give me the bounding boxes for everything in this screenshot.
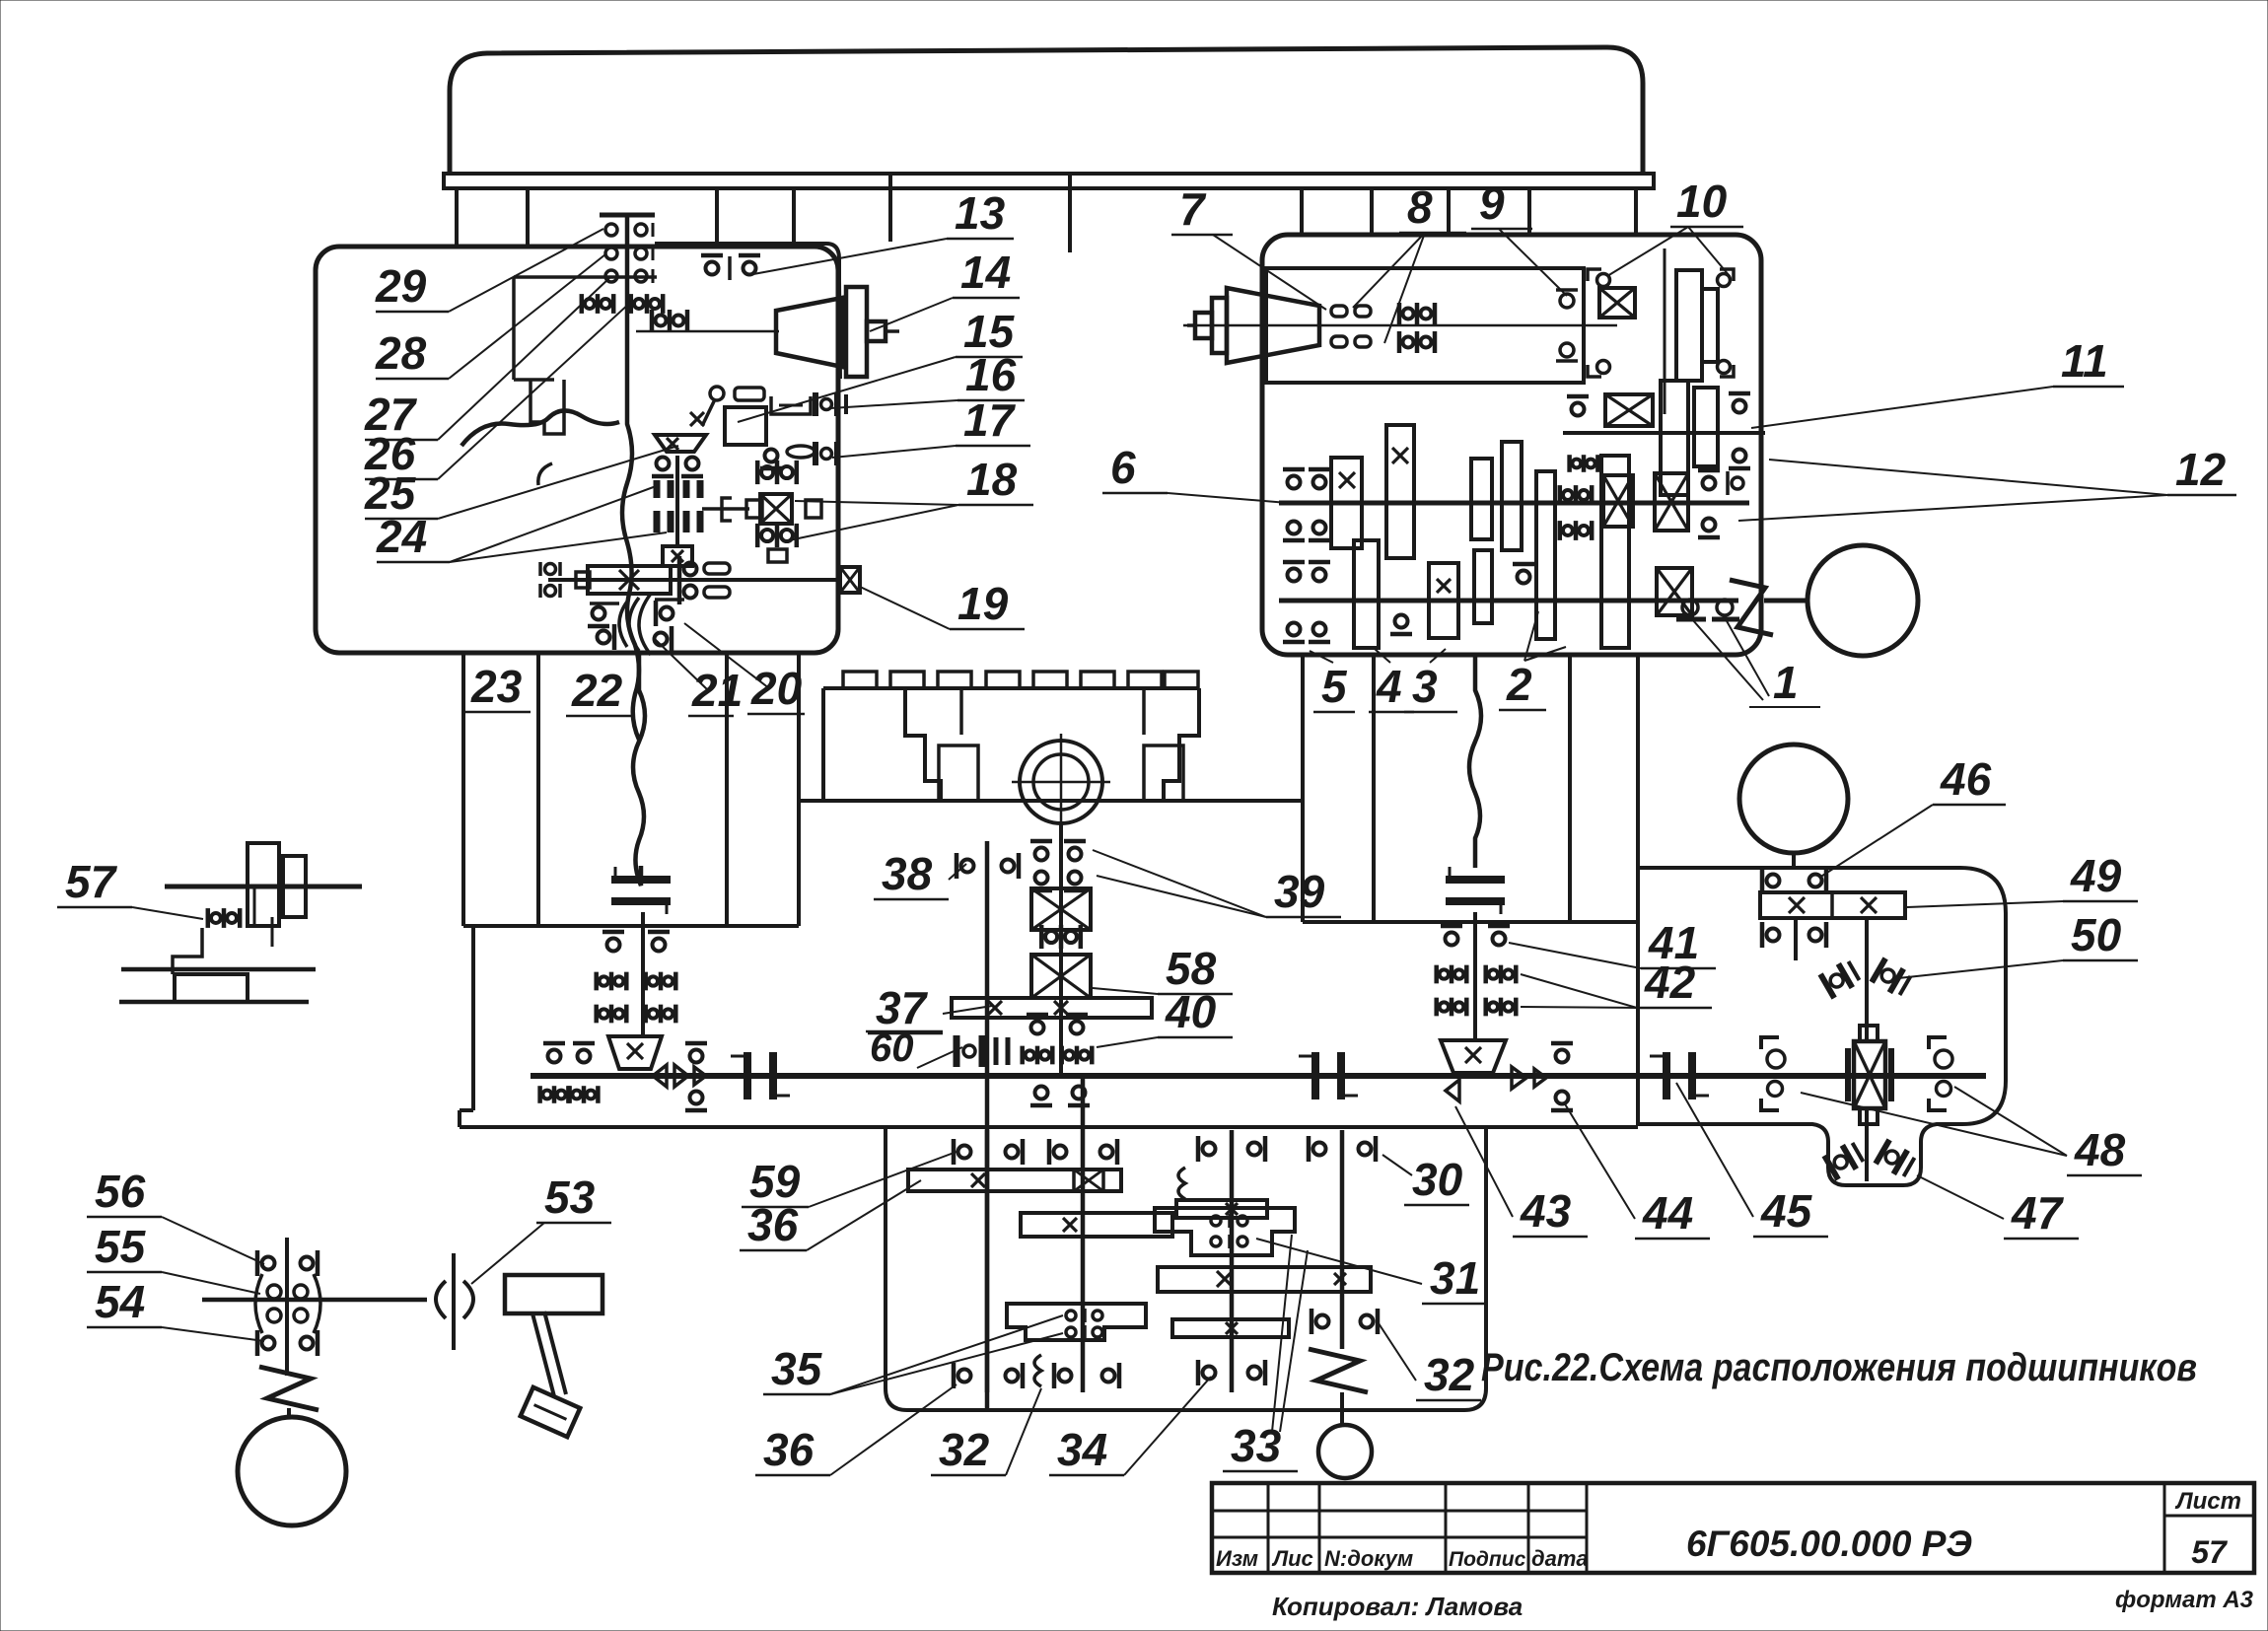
svg-text:дата: дата [1531, 1546, 1589, 1571]
svg-text:29: 29 [375, 260, 427, 312]
xbox 40b [1031, 955, 1091, 998]
bearings left of box [540, 562, 560, 598]
low xbox [1657, 568, 1692, 615]
bearing C bottom [1198, 1360, 1265, 1385]
coil C [1178, 1168, 1185, 1199]
main coupling A [731, 1052, 790, 1099]
low bearings right 1 [1676, 600, 1739, 619]
label 59 [742, 1152, 957, 1207]
svg-text:57: 57 [2191, 1534, 2229, 1570]
bottom shaft A [985, 1130, 990, 1392]
label 60 [870, 1027, 962, 1070]
label 11 [1751, 335, 2124, 428]
low shaft right [1279, 599, 1738, 603]
mid xboxes [1603, 473, 1688, 531]
machine top cover outline [450, 47, 1643, 174]
label 22 [566, 665, 631, 716]
block 35 [1007, 1304, 1146, 1340]
spindle flange left box [600, 213, 655, 218]
label 55 [87, 1221, 260, 1294]
svg-text:19: 19 [957, 578, 1009, 629]
shaft D to wheel [1340, 1392, 1344, 1426]
mid gears A [1331, 458, 1362, 548]
svg-text:формат А3: формат А3 [2115, 1587, 2254, 1613]
bracket bearings 48 right [1929, 1037, 1952, 1110]
sheet number [2191, 1534, 2229, 1570]
xbox end 19 [840, 567, 860, 593]
svg-text:6: 6 [1110, 442, 1136, 493]
label 6 [1102, 442, 1288, 503]
gear bar 1 [908, 1170, 1121, 1191]
right bearing stack [1437, 926, 1517, 1016]
coil B bottom [1034, 1355, 1041, 1386]
left bearing stack [597, 932, 676, 1023]
title block horizontals [1212, 1511, 2254, 1537]
svg-text:24: 24 [376, 511, 427, 562]
label 40 [1097, 986, 1233, 1047]
fraction bar 37 60 [866, 1030, 943, 1033]
pad under 18 [768, 549, 787, 562]
main coupling C [1650, 1052, 1709, 1099]
left columns [463, 653, 799, 926]
label 58 [1093, 943, 1233, 994]
label 45 [1676, 1083, 1828, 1237]
svg-text:32: 32 [1424, 1349, 1475, 1400]
svg-text:11: 11 [2061, 335, 2108, 387]
left feed shaft mid [641, 912, 645, 1036]
big handwheel bottom left [238, 1417, 346, 1525]
label 35 [763, 1315, 1063, 1394]
svg-text:18: 18 [966, 454, 1018, 505]
svg-text:23: 23 [470, 661, 523, 712]
label 1 [1692, 619, 1820, 708]
table body [823, 688, 1199, 801]
label 7 [1171, 183, 1326, 310]
motor cone flange [846, 287, 899, 377]
bottom gearbox outline [886, 1127, 1486, 1410]
right columns [1303, 655, 1638, 922]
svg-text:2: 2 [1506, 659, 1532, 710]
label 16 [830, 349, 1025, 408]
bearing 13 group [701, 255, 760, 280]
bearing column 24 left [652, 456, 703, 566]
shaft 40 vertical upper [1059, 824, 1063, 1077]
label 57 [57, 856, 203, 919]
label 46 [1819, 753, 2006, 878]
small handwheel [1318, 1425, 1372, 1478]
selector body [725, 407, 766, 445]
bearing B top [1049, 1139, 1117, 1165]
left feed coupling [611, 867, 671, 914]
mounting band under cover [444, 174, 1654, 188]
right motor flange [1187, 298, 1227, 353]
svg-text:36: 36 [747, 1199, 799, 1250]
trapezoid gear 15 [655, 435, 706, 452]
connector stubs band to left gearbox [457, 176, 1070, 252]
upper right bearings [1567, 393, 1750, 472]
label 5 [1310, 651, 1355, 712]
svg-text:13: 13 [955, 187, 1006, 239]
svg-text:42: 42 [1644, 957, 1696, 1008]
label 23 [465, 661, 531, 712]
label 30 [1382, 1154, 1469, 1205]
mid gears C [1471, 442, 1555, 639]
label 34 [1049, 1377, 1211, 1475]
copied by [1272, 1592, 1523, 1621]
small circle 17 row [760, 446, 815, 468]
housing end bearings 9 [1556, 290, 1578, 361]
table teeth [823, 672, 1199, 688]
svg-text:32: 32 [939, 1424, 990, 1475]
right bevel gear pair [1441, 1040, 1546, 1101]
svg-text:3: 3 [1412, 661, 1438, 712]
bearing box with X item 20 [576, 566, 671, 594]
bold cluster 17 [815, 442, 837, 465]
right motor cone [1227, 288, 1319, 363]
label 2 [1499, 611, 1566, 710]
lever 53 handle [521, 1312, 581, 1437]
svg-text:30: 30 [1412, 1154, 1463, 1205]
bearing 38 [957, 853, 1019, 879]
shaft 46 bearing top [1762, 868, 1826, 893]
mid gears B [1386, 425, 1414, 558]
bearings right of box 21 [679, 556, 730, 604]
low extra bearings [1390, 564, 1534, 634]
label 42 [1521, 957, 1712, 1008]
label 21 [655, 639, 743, 716]
gear bar 2 [1021, 1213, 1172, 1237]
label 3 [1404, 649, 1457, 712]
label 4 [1369, 649, 1414, 712]
tilted bearings 50 [1820, 958, 1912, 998]
svg-text:38: 38 [882, 848, 933, 899]
label 53 [471, 1171, 611, 1284]
zigzag 54 [259, 1367, 319, 1410]
svg-text:47: 47 [2011, 1187, 2065, 1239]
left feed shaft wavy lower [633, 653, 645, 886]
label 47 [1917, 1175, 2079, 1239]
svg-text:16: 16 [965, 349, 1017, 400]
label 37 [868, 982, 992, 1033]
svg-text:N:докум: N:докум [1324, 1546, 1413, 1571]
bearings below main [1030, 1087, 1090, 1106]
label 36b [755, 1384, 957, 1475]
label 50 [1898, 909, 2138, 978]
mid bearings left 6 [1283, 469, 1330, 540]
gear shaft mid right [1279, 501, 1749, 506]
table bottom line [799, 799, 1303, 803]
svg-text:34: 34 [1057, 1424, 1107, 1475]
bearing 18 lower [757, 524, 797, 547]
xbox 18 [746, 494, 821, 524]
gear bar C small [1176, 1200, 1267, 1218]
svg-text:50: 50 [2071, 909, 2122, 960]
svg-text:22: 22 [571, 665, 623, 716]
svg-text:9: 9 [1479, 177, 1505, 229]
sheet word [2174, 1488, 2241, 1515]
upper right shaft [1563, 431, 1765, 435]
bearing A top [954, 1139, 1023, 1165]
label 41 [1509, 917, 1716, 968]
table bore circles [1012, 734, 1110, 831]
block 31 [1155, 1208, 1295, 1255]
right feed shaft mid [1473, 912, 1477, 1038]
label 27 [364, 278, 609, 440]
svg-text:46: 46 [1940, 753, 1992, 805]
bottom shaft B [1081, 1077, 1086, 1392]
svg-text:39: 39 [1274, 866, 1325, 917]
format note [2115, 1587, 2254, 1613]
label 36a [740, 1180, 921, 1250]
svg-text:35: 35 [771, 1343, 823, 1394]
mid bearings right 12 [1698, 470, 1743, 537]
shaft to big wheel [287, 1408, 291, 1417]
figure caption [1481, 1346, 2197, 1389]
svg-text:21: 21 [691, 665, 743, 716]
svg-text:40: 40 [1165, 986, 1217, 1037]
right zigzag [1730, 580, 1773, 635]
left gearbox T-block [531, 380, 564, 434]
label 54 [87, 1276, 264, 1341]
xbox 40a [1031, 888, 1091, 930]
svg-text:5: 5 [1321, 661, 1348, 712]
bottom shaft C [1230, 1130, 1235, 1392]
cluster 58 40 [1023, 1015, 1093, 1064]
label 20 [684, 623, 805, 714]
gear bar 3 [1158, 1267, 1371, 1292]
left gearbox inner partition [514, 277, 657, 380]
vertical spindle unit 10 [1588, 248, 1734, 414]
assembly 53 shaft [202, 1298, 427, 1303]
main coupling B [1299, 1052, 1358, 1099]
svg-text:43: 43 [1520, 1185, 1572, 1237]
label 8 [1353, 181, 1466, 343]
main shaft [531, 1073, 1986, 1079]
svg-text:49: 49 [2070, 850, 2122, 901]
zigzag D [1309, 1349, 1368, 1392]
motor shaft centerline left [636, 330, 779, 333]
svg-text:17: 17 [963, 394, 1017, 446]
right gearbox outline [1262, 235, 1761, 655]
left bevel gear pair [608, 1036, 706, 1087]
right feed shaft wavy [1469, 655, 1481, 868]
lever arm [690, 399, 715, 426]
low bearings left [1283, 562, 1330, 642]
svg-text:Подпис: Подпис [1449, 1548, 1526, 1571]
spindle lower bearings [582, 294, 663, 314]
bearing A bottom [954, 1363, 1023, 1388]
label 26 [364, 302, 631, 479]
x unit 48 [1848, 1026, 1891, 1124]
svg-text:6Г605.00.000 РЭ: 6Г605.00.000 РЭ [1686, 1524, 1972, 1564]
svg-text:Лис: Лис [1271, 1546, 1313, 1571]
detail 57 gear block [119, 843, 362, 1002]
motor cone left box [776, 298, 842, 367]
bearing mid single [1551, 1043, 1573, 1110]
shaft 46 bearing low [1762, 918, 1826, 960]
wheel 46 [1739, 745, 1848, 870]
svg-text:31: 31 [1430, 1252, 1480, 1304]
connector stubs band to right gearbox [1302, 188, 1636, 237]
main bearings left end [540, 1043, 707, 1110]
svg-text:60: 60 [870, 1027, 914, 1070]
label 43 [1455, 1106, 1588, 1237]
label 31 [1256, 1239, 1487, 1304]
bearing 10|101 [1041, 925, 1081, 949]
upper right gears [1661, 381, 1718, 495]
label 17 [832, 394, 1030, 458]
gear bar 4 [1172, 1319, 1289, 1337]
bottom shaft D [1340, 1130, 1345, 1349]
bearing 10|01 left motor [652, 310, 687, 331]
svg-text:10: 10 [1676, 176, 1728, 227]
svg-text:28: 28 [375, 327, 427, 379]
title block verticals [1268, 1483, 2164, 1573]
label 44 [1564, 1102, 1710, 1239]
svg-text:33: 33 [1231, 1420, 1282, 1471]
cross shaft 18 [702, 498, 749, 521]
flex cable left box [461, 410, 619, 485]
svg-text:Рис.22.Схема расположения подш: Рис.22.Схема расположения подшипников [1481, 1346, 2197, 1389]
svg-text:56: 56 [95, 1166, 146, 1217]
bold cluster 16 [815, 392, 846, 416]
svg-text:57: 57 [65, 856, 118, 907]
gear bar 37 [952, 998, 1152, 1018]
label 56 [87, 1166, 264, 1264]
right motor bearings b101 [1399, 303, 1435, 353]
spindle bearing circles [605, 223, 653, 283]
label 28 [375, 254, 605, 379]
lower shaft left box [548, 578, 838, 582]
left gearbox outline [316, 247, 838, 653]
svg-text:54: 54 [95, 1276, 145, 1327]
label 12 [1738, 444, 2236, 521]
svg-text:44: 44 [1642, 1187, 1693, 1239]
label 32r [1379, 1323, 1481, 1400]
lever 53 box [505, 1275, 602, 1313]
svg-text:7: 7 [1179, 183, 1207, 235]
worm box 49 [1760, 892, 1905, 918]
handwheel right [1764, 545, 1918, 656]
right feed coupling [1446, 867, 1505, 914]
label 13 [753, 187, 1014, 274]
left gearbox motor dome [657, 244, 840, 379]
svg-text:53: 53 [544, 1171, 596, 1223]
shaft 38 vertical [985, 841, 990, 1410]
spindle shaft left box wavy [622, 215, 639, 740]
bracket 16 [771, 396, 811, 414]
label 49 [1907, 850, 2138, 907]
document number [1686, 1524, 1972, 1564]
label 25 [364, 446, 678, 519]
svg-text:20: 20 [750, 663, 803, 714]
tilted bearings 47 [1824, 1140, 1916, 1179]
lever pivot circle [710, 387, 764, 400]
label 18 [789, 454, 1033, 540]
middle body bottom line [460, 1125, 1638, 1129]
svg-text:Изм: Изм [1216, 1546, 1258, 1571]
label 33 [1223, 1235, 1308, 1471]
svg-text:4: 4 [1376, 661, 1402, 712]
label 15 [738, 306, 1023, 422]
arc bearing cluster 21-20 [588, 594, 690, 655]
low gears [1354, 540, 1492, 648]
bearing 18 upper [757, 461, 797, 484]
bearing oval 54-56 [255, 1238, 320, 1376]
clutch bells 53 [436, 1253, 473, 1350]
svg-text:45: 45 [1760, 1185, 1813, 1237]
middle body left step [460, 926, 473, 1127]
right motor centerline [1183, 324, 1617, 327]
label 39 [1093, 850, 1341, 917]
bearing C top [1198, 1136, 1265, 1162]
cluster 39 [1030, 841, 1086, 890]
shaft 47 vertical [1865, 918, 1869, 1181]
svg-text:1: 1 [1773, 657, 1799, 708]
label 24 [376, 485, 667, 562]
label 10 [1607, 176, 1743, 276]
bearing D top [1309, 1136, 1376, 1162]
label 19 [858, 578, 1025, 629]
svg-text:Копировал: Ламова: Копировал: Ламова [1272, 1592, 1523, 1621]
svg-text:48: 48 [2074, 1124, 2126, 1175]
svg-text:12: 12 [2175, 444, 2227, 495]
label 48 [1801, 1087, 2142, 1175]
right motor bearings ee [1331, 306, 1371, 347]
svg-text:14: 14 [960, 247, 1011, 298]
bold mid bearings [1560, 485, 1592, 540]
label 9 [1471, 177, 1567, 296]
bottom right box outline [1638, 868, 2006, 1185]
label 38 [874, 848, 966, 899]
label 14 [870, 247, 1020, 331]
bracket bearing mid [1761, 1037, 1785, 1110]
label 29 [375, 229, 603, 312]
right motor housing [1266, 268, 1584, 383]
svg-text:Лист: Лист [2174, 1488, 2241, 1515]
title block small text [1216, 1546, 1589, 1571]
cluster 60 [957, 1035, 1008, 1067]
tall gear [1601, 456, 1629, 648]
bearing B bottom [1054, 1363, 1119, 1388]
upper right xbox [1605, 394, 1653, 426]
svg-text:55: 55 [95, 1221, 147, 1272]
bearing D mid [1311, 1309, 1378, 1334]
svg-text:36: 36 [763, 1424, 815, 1475]
title block frame [1212, 1483, 2254, 1573]
label 32b [931, 1388, 1041, 1475]
svg-text:8: 8 [1407, 181, 1433, 233]
